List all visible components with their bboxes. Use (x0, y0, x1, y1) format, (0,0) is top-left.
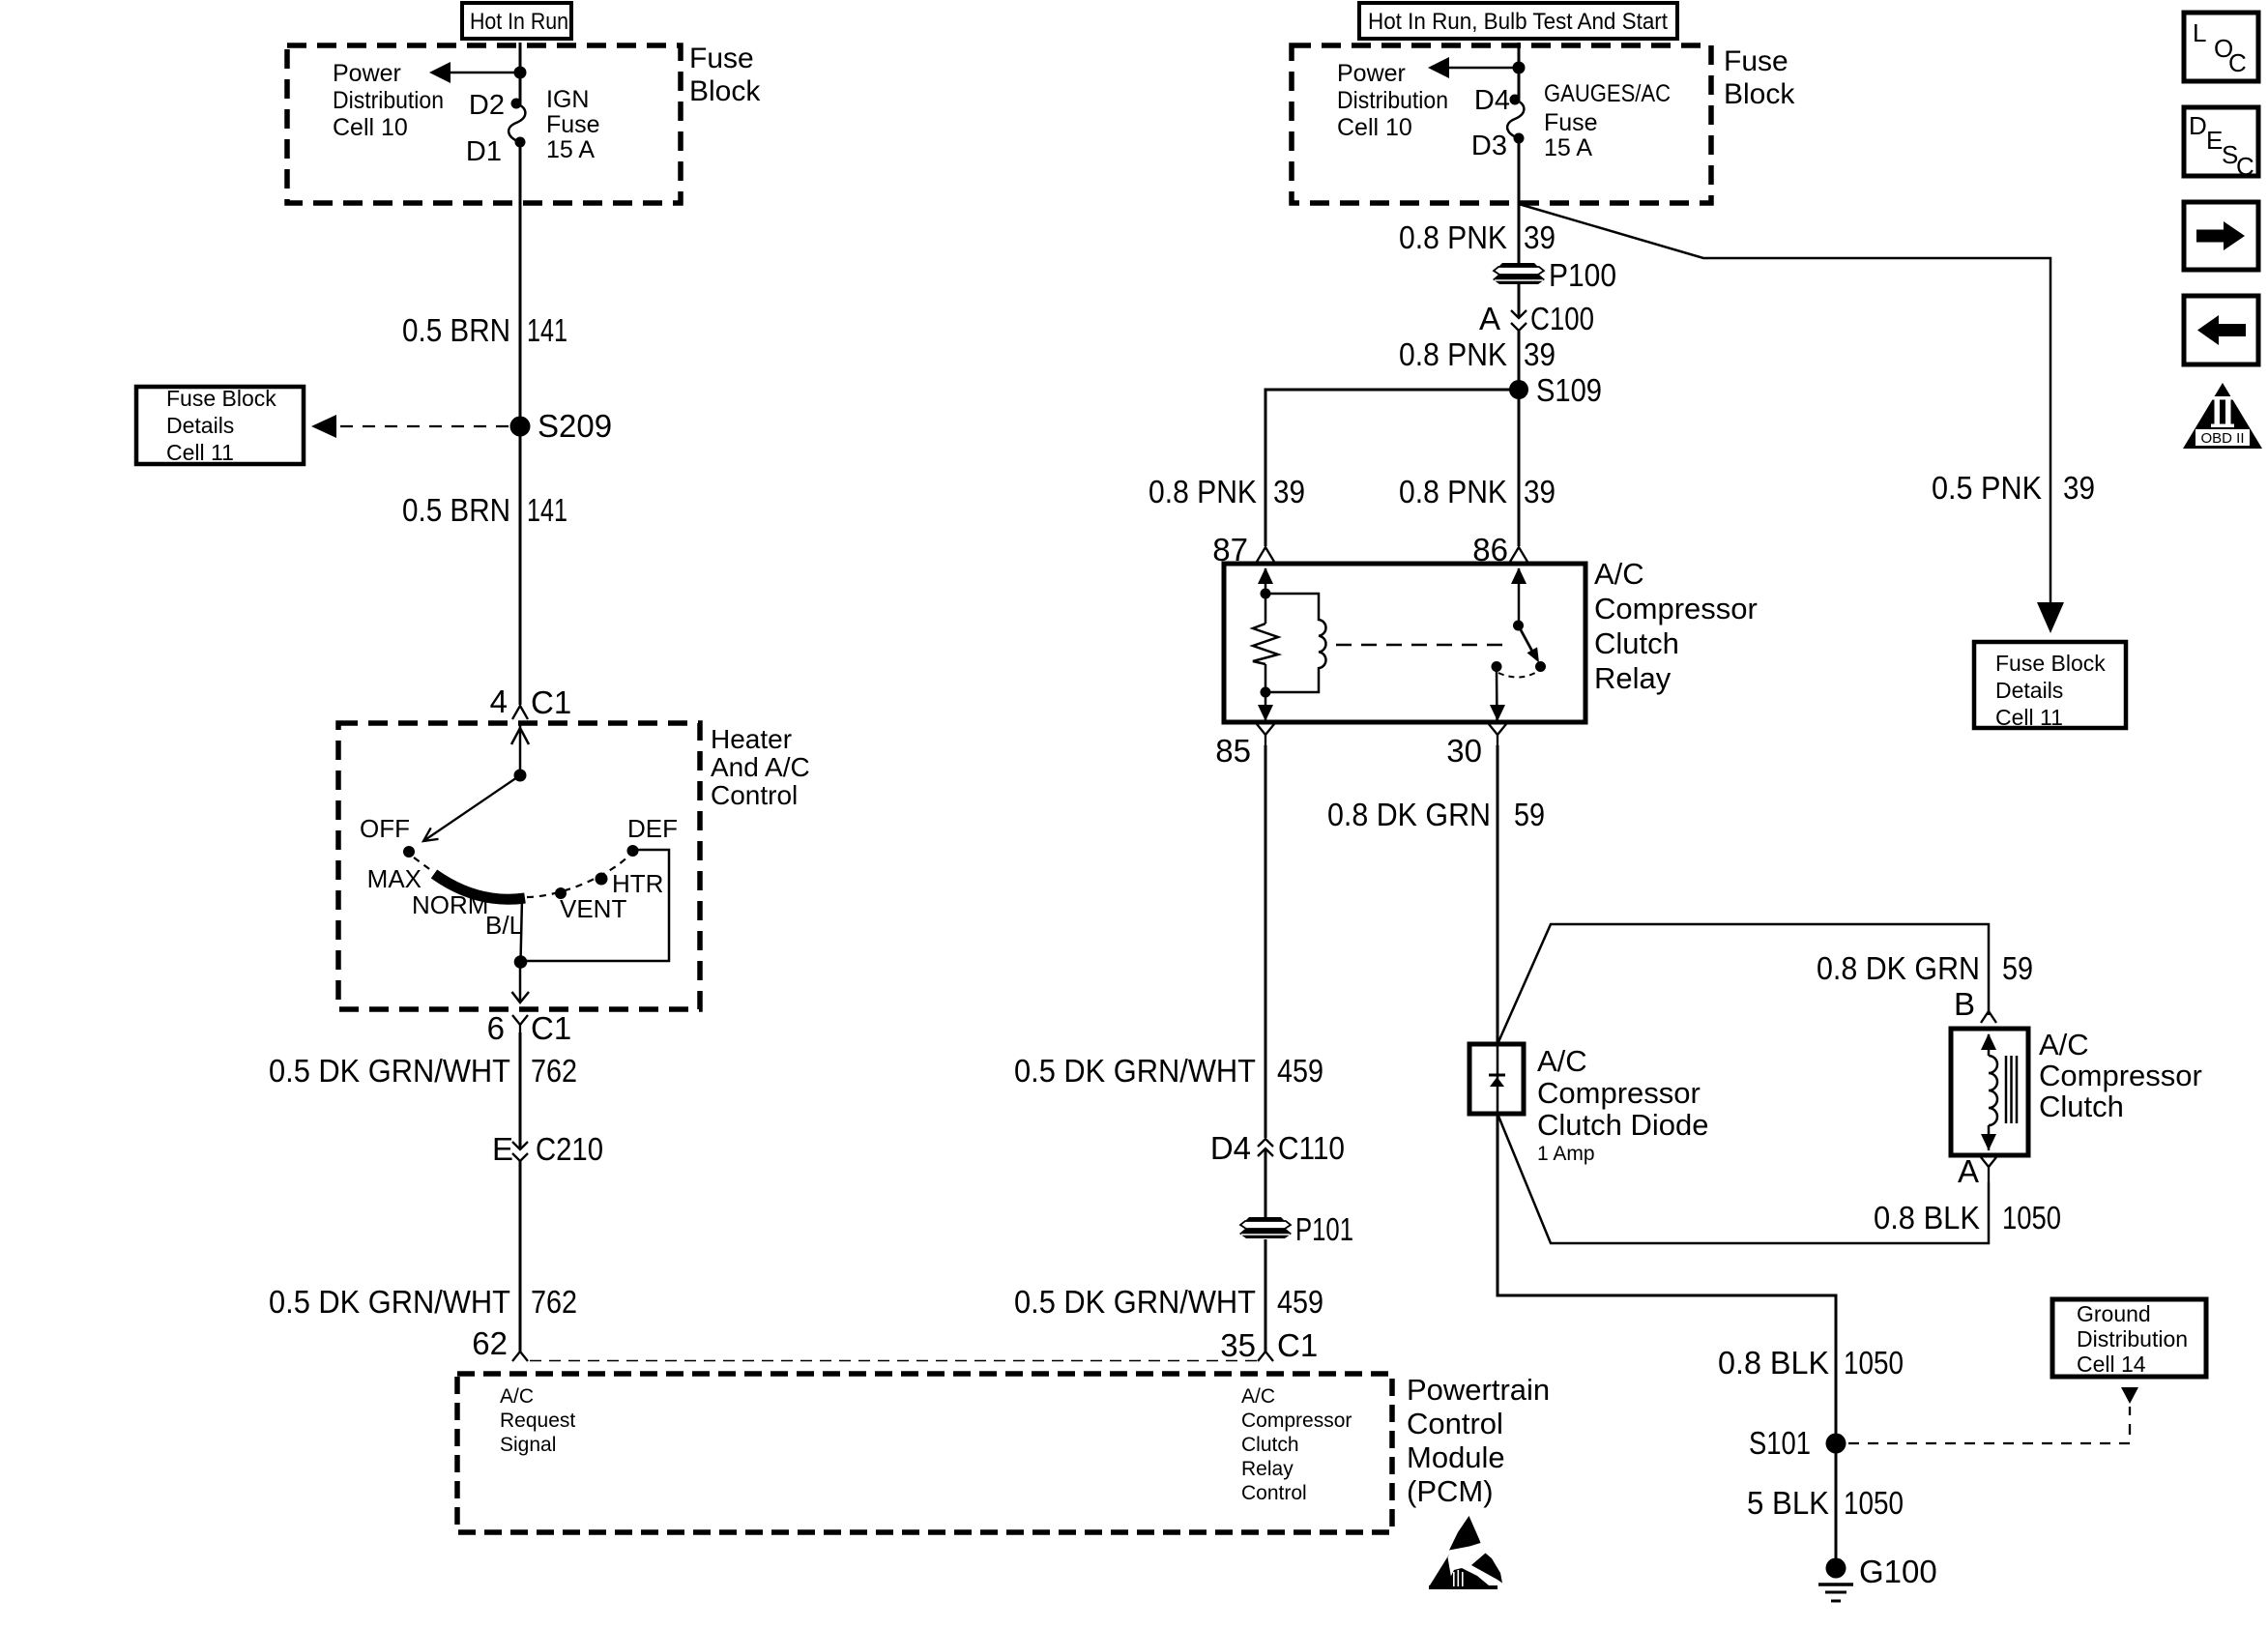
arrow to Power Distribution (left) (429, 62, 520, 83)
relay coil branch wire with arrows (1258, 567, 1273, 721)
pin D3 (1471, 131, 1525, 161)
svg-text:Control: Control (1241, 1482, 1307, 1504)
svg-text:A/C: A/C (1537, 1044, 1587, 1078)
label: Heater And A/C Control (711, 724, 810, 810)
svg-text:Ground: Ground (2077, 1301, 2151, 1326)
clutch coil with arrows (1981, 1033, 1997, 1150)
relay switch arm with arrowhead (1519, 625, 1540, 663)
wire label: 0.8 PNK 39 (first) (1399, 219, 1556, 255)
arrowhead down to details box (2037, 602, 2064, 633)
in-line connector A C100 (1479, 301, 1594, 336)
svg-text:0.5 BRN: 0.5 BRN (402, 312, 510, 348)
svg-text:30: 30 (1446, 733, 1482, 769)
text: Power Distribution Cell 10 (left) (333, 60, 444, 141)
contact VENT (555, 887, 626, 923)
wire label: 0.8 DK GRN 59 (clutch feed) (1817, 950, 2033, 986)
switch wiper arm with arrowhead (423, 775, 520, 841)
wire: relay 85 down to C110 (1265, 745, 1267, 1138)
svg-text:C: C (2236, 152, 2254, 181)
svg-text:Cell 14: Cell 14 (2077, 1352, 2146, 1377)
svg-text:Compressor: Compressor (1241, 1410, 1352, 1432)
pass-through grommet P100 (1493, 257, 1616, 293)
thick wiper travel arc MAX-NORM-B/L (434, 874, 525, 899)
svg-text:DEF: DEF (627, 814, 678, 843)
svg-text:Cell 11: Cell 11 (1995, 705, 2063, 730)
svg-text:Fuse: Fuse (689, 43, 754, 74)
svg-text:Compressor: Compressor (2039, 1059, 2202, 1092)
svg-text:Block: Block (689, 75, 761, 107)
svg-text:Distribution: Distribution (2077, 1326, 2188, 1352)
node label box: Hot In Run (462, 3, 571, 39)
label: A/C Compressor Clutch Diode 1 Amp (1537, 1044, 1708, 1165)
svg-text:A: A (1479, 301, 1500, 336)
svg-text:0.5 BRN: 0.5 BRN (402, 492, 510, 528)
svg-text:Clutch: Clutch (1241, 1434, 1299, 1456)
svg-text:OBD II: OBD II (2200, 430, 2244, 447)
wire: header down to fuse D4 (1518, 43, 1521, 99)
text: Power Distribution Cell 10 (right) (1337, 60, 1448, 141)
svg-text:L: L (2193, 18, 2206, 47)
svg-text:B/L: B/L (485, 911, 523, 940)
icon box LOC (2184, 13, 2258, 81)
wire label: 0.5 BRN 141 (upper) (402, 312, 567, 348)
wire: diode down and over to S101 (1497, 1114, 1836, 1560)
svg-text:A/C: A/C (2039, 1028, 2089, 1061)
wire: relay 30 down to diode (1497, 745, 1499, 1044)
svg-text:1 Amp: 1 Amp (1537, 1143, 1595, 1165)
relay box (1224, 564, 1585, 722)
wire: Hot In Run down to fuse D2 (519, 43, 522, 102)
svg-text:C100: C100 (1530, 301, 1594, 336)
wire: C110 down to P101 (1265, 1148, 1267, 1217)
svg-text:141: 141 (527, 492, 567, 528)
svg-text:D4: D4 (1210, 1130, 1251, 1166)
info box: Fuse Block Details Cell 11 (left) (136, 386, 304, 465)
svg-text:0.8 DK GRN: 0.8 DK GRN (1817, 950, 1980, 986)
icon box DESC (2184, 107, 2258, 181)
svg-text:Clutch Diode: Clutch Diode (1537, 1108, 1708, 1142)
fuse element GAUGES/AC (squiggle) (1507, 100, 1524, 138)
svg-text:Control: Control (711, 780, 798, 810)
wire: B/L contact down to output junction (521, 898, 523, 962)
info box: Fuse Block Details Cell 11 (right) (1974, 642, 2126, 730)
svg-text:762: 762 (531, 1284, 577, 1320)
svg-text:0.8 DK GRN: 0.8 DK GRN (1327, 797, 1491, 832)
pin A chevron (1958, 1153, 1996, 1189)
node S109 (1509, 372, 1602, 408)
contact DEF (627, 814, 679, 857)
relay output wire with down arrow (1490, 669, 1505, 721)
wire label: 0.5 DK GRN/WHT 762 (lower) (269, 1284, 577, 1320)
svg-text:Fuse: Fuse (546, 111, 600, 138)
svg-text:Signal: Signal (500, 1434, 556, 1456)
svg-text:0.5 DK GRN/WHT: 0.5 DK GRN/WHT (1014, 1284, 1256, 1320)
in-line connector D4 C110 (1210, 1130, 1345, 1166)
svg-text:OFF: OFF (360, 814, 410, 843)
pass-through grommet P101 (1239, 1211, 1353, 1247)
svg-text:0.8 PNK: 0.8 PNK (1399, 336, 1507, 372)
svg-text:Power: Power (333, 60, 401, 87)
wire: P100 to C100 (1518, 284, 1521, 318)
svg-text:D4: D4 (1474, 85, 1510, 116)
svg-text:Power: Power (1337, 60, 1406, 87)
pin 87 chevron (1212, 532, 1274, 567)
wire label: 0.8 BLK 1050 (clutch return) (1874, 1200, 2061, 1236)
svg-text:D2: D2 (469, 90, 505, 121)
svg-text:1050: 1050 (2002, 1200, 2061, 1236)
A/C compressor clutch diode box (1469, 1044, 1524, 1114)
wire label: 0.5 DK GRN/WHT 762 (upper) (269, 1053, 577, 1089)
fuse element IGN (squiggle) (509, 103, 525, 142)
svg-text:762: 762 (531, 1053, 577, 1089)
svg-text:(PCM): (PCM) (1407, 1474, 1494, 1508)
relay switch pivot dot (1513, 621, 1524, 631)
svg-text:C1: C1 (531, 1010, 571, 1046)
dashed reference to ground details (1848, 1387, 2138, 1443)
heater feed junction dot (514, 770, 527, 782)
relay contact 30 dot (1492, 661, 1502, 672)
svg-text:Compressor: Compressor (1537, 1076, 1701, 1110)
svg-text:Cell 10: Cell 10 (333, 114, 408, 141)
heater exit wire with down arrow (512, 962, 530, 1003)
PCM dashed box (457, 1374, 1392, 1532)
contact HTR (596, 869, 664, 898)
svg-text:Relay: Relay (1594, 661, 1672, 695)
svg-text:Module: Module (1407, 1440, 1505, 1474)
label: Powertrain Control Module (PCM) (1407, 1373, 1550, 1508)
wire label: 0.5 BRN 141 (lower) (402, 492, 567, 528)
svg-text:6: 6 (487, 1010, 505, 1046)
svg-text:C210: C210 (536, 1131, 603, 1167)
wire label: 0.5 PNK 39 (1932, 470, 2095, 506)
info box: Ground Distribution Cell 14 (2052, 1299, 2206, 1377)
pin 86 chevron (1472, 532, 1527, 567)
svg-text:Block: Block (1724, 78, 1795, 110)
icon box arrow left (2184, 296, 2258, 364)
svg-text:A/C: A/C (500, 1385, 534, 1408)
svg-text:1050: 1050 (1844, 1485, 1904, 1521)
svg-text:0.8 PNK: 0.8 PNK (1149, 474, 1257, 509)
wire label: 0.5 DK GRN/WHT 459 (upper) (1014, 1053, 1323, 1089)
svg-text:0.5 DK GRN/WHT: 0.5 DK GRN/WHT (269, 1053, 510, 1089)
svg-text:D3: D3 (1471, 131, 1507, 161)
svg-text:0.8 PNK: 0.8 PNK (1399, 474, 1507, 509)
wire: diagonal feed to right fuse details (1519, 204, 2050, 607)
wire label: 5 BLK 1050 (1747, 1485, 1904, 1521)
svg-text:Request: Request (500, 1410, 575, 1432)
icon OBD II triangle (2183, 383, 2262, 449)
pin B chevron (1954, 986, 1996, 1023)
text: A/C Request Signal (500, 1385, 575, 1456)
svg-text:C: C (2228, 48, 2247, 77)
icon box arrow right (2184, 202, 2258, 270)
relay actuation dashed link (1336, 644, 1510, 647)
diode symbol (1489, 1075, 1505, 1087)
svg-text:GAUGES/AC: GAUGES/AC (1544, 80, 1671, 107)
dashed arc B/L to DEF through VENT and HTR (527, 855, 630, 897)
svg-text:39: 39 (1524, 219, 1556, 255)
svg-text:Clutch: Clutch (2039, 1090, 2124, 1123)
svg-text:G100: G100 (1859, 1554, 1937, 1589)
svg-text:Distribution: Distribution (1337, 87, 1448, 114)
svg-text:P101: P101 (1295, 1211, 1353, 1247)
svg-text:Clutch: Clutch (1594, 626, 1679, 660)
text: A/C Compressor Clutch Relay Control (1241, 1385, 1352, 1504)
svg-text:Fuse Block: Fuse Block (1995, 651, 2106, 676)
svg-text:Cell 10: Cell 10 (1337, 114, 1412, 141)
wire label: 0.5 DK GRN/WHT 459 (lower) (1014, 1284, 1323, 1320)
svg-text:39: 39 (2063, 470, 2095, 506)
svg-text:E: E (492, 1131, 513, 1167)
svg-text:62: 62 (472, 1325, 508, 1361)
relay switch arm end dot (1535, 661, 1546, 672)
wire through diode box (1497, 1044, 1499, 1114)
relay swing dashed arc (1498, 673, 1535, 678)
heater output junction dot (514, 955, 528, 969)
svg-text:C1: C1 (531, 684, 571, 720)
ESD warning symbol (1429, 1516, 1502, 1589)
svg-text:IGN: IGN (546, 86, 589, 113)
pin D1 (466, 136, 526, 167)
svg-text:0.8 PNK: 0.8 PNK (1399, 219, 1507, 255)
svg-text:39: 39 (1524, 336, 1556, 372)
svg-text:S209: S209 (538, 408, 612, 444)
ground G100 (1818, 1554, 1937, 1601)
svg-text:D1: D1 (466, 136, 502, 167)
wire: P101 down to PCM pin 35 (1265, 1239, 1267, 1352)
svg-text:NORM: NORM (412, 890, 488, 919)
svg-text:0.5 PNK: 0.5 PNK (1932, 470, 2042, 506)
svg-text:39: 39 (1524, 474, 1556, 509)
svg-text:C1: C1 (1277, 1327, 1318, 1363)
svg-text:Distribution: Distribution (333, 87, 444, 114)
svg-text:0.5 DK GRN/WHT: 0.5 DK GRN/WHT (1014, 1053, 1256, 1089)
svg-text:459: 459 (1277, 1053, 1323, 1089)
node S209 (510, 408, 613, 444)
text: IGN Fuse 15 A (546, 86, 600, 163)
svg-text:35: 35 (1220, 1327, 1256, 1363)
label: Fuse Block (left) (689, 43, 761, 107)
svg-text:Details: Details (166, 413, 234, 438)
heater entry wire with up arrow (511, 723, 529, 775)
svg-text:59: 59 (2002, 950, 2033, 986)
svg-text:Hot In Run: Hot In Run (470, 9, 568, 35)
text: GAUGES/AC Fuse 15 A (1544, 80, 1671, 161)
wire label: 0.8 PNK 39 (branch 86) (1399, 474, 1556, 509)
svg-text:Compressor: Compressor (1594, 592, 1758, 625)
svg-text:E: E (2206, 126, 2223, 155)
svg-text:15 A: 15 A (1544, 134, 1592, 161)
label: A/C Compressor Clutch Relay (1594, 557, 1758, 695)
pin 30 chevron (1446, 724, 1506, 769)
pin D4 (1474, 85, 1521, 116)
svg-text:59: 59 (1514, 797, 1545, 832)
svg-text:P100: P100 (1549, 257, 1616, 293)
svg-text:Details: Details (1995, 678, 2063, 703)
wire: DEF loop to output junction (526, 850, 669, 961)
fuse block (right) dashed box (1292, 45, 1711, 203)
pin 85 chevron (1215, 724, 1274, 769)
svg-text:15 A: 15 A (546, 136, 595, 163)
pin 6 C1 (heater connector) (487, 1010, 572, 1046)
heater and A/C control dashed box (338, 723, 700, 1009)
relay coil top dot (1261, 589, 1271, 599)
svg-text:HTR: HTR (612, 869, 663, 898)
relay coil (1265, 594, 1325, 692)
wire label: 0.8 PNK 39 (branch 87) (1149, 474, 1305, 509)
wire: heater to C210 (519, 1032, 522, 1148)
label: A/C Compressor Clutch (2039, 1028, 2202, 1123)
svg-text:1050: 1050 (1844, 1345, 1904, 1381)
label: Fuse Block (right) (1724, 45, 1795, 110)
wire label: 0.8 BLK 1050 (to S101) (1718, 1345, 1904, 1381)
svg-text:S109: S109 (1536, 372, 1602, 408)
node label box: Hot In Run, Bulb Test And Start (1359, 3, 1677, 39)
svg-text:A/C: A/C (1594, 557, 1644, 591)
svg-text:Powertrain: Powertrain (1407, 1373, 1550, 1407)
svg-text:4: 4 (490, 683, 508, 719)
wire: D3 down to P100 (1518, 138, 1521, 263)
svg-text:141: 141 (527, 312, 567, 348)
pin 4 C1 (heater connector) (490, 683, 572, 720)
svg-text:85: 85 (1215, 733, 1251, 769)
svg-text:459: 459 (1277, 1284, 1323, 1320)
svg-text:C110: C110 (1278, 1130, 1345, 1166)
svg-text:Fuse: Fuse (1724, 45, 1788, 77)
in-line connector E C210 (492, 1131, 603, 1167)
diode branch diagonals and clutch loop rails (1497, 924, 1989, 1243)
pin D2 (469, 90, 522, 121)
dashed reference arrow to details box (311, 415, 509, 438)
junction dot in right fuse block (1513, 62, 1526, 74)
clutch core lines (2006, 1056, 2017, 1123)
dashed connector face line 62 to 35 (530, 1360, 1257, 1362)
wire: C100 to S109 to relay 86 (1518, 331, 1521, 546)
wire label: 0.8 PNK 39 (second) (1399, 336, 1556, 372)
svg-text:Hot In Run, Bulb Test And Star: Hot In Run, Bulb Test And Start (1368, 9, 1668, 35)
svg-text:0.8 BLK: 0.8 BLK (1718, 1345, 1829, 1381)
arrow to Power Distribution (right) (1428, 57, 1519, 78)
svg-text:MAX: MAX (367, 864, 422, 893)
wire: C210 down to PCM pin 62 (519, 1160, 522, 1352)
svg-text:Fuse Block: Fuse Block (166, 386, 276, 411)
wire: D1 down to heater C1 (519, 142, 522, 705)
svg-text:Control: Control (1407, 1407, 1503, 1440)
svg-text:D: D (2189, 111, 2207, 140)
junction dot in left fuse block (514, 67, 527, 79)
svg-text:Cell 11: Cell 11 (166, 440, 234, 465)
svg-text:39: 39 (1273, 474, 1305, 509)
wire label: 0.8 DK GRN 59 (relay output) (1327, 797, 1545, 832)
wire: S109 branch to relay 87 (1265, 390, 1519, 546)
svg-text:VENT: VENT (560, 894, 626, 923)
svg-text:5 BLK: 5 BLK (1747, 1485, 1829, 1521)
svg-text:Relay: Relay (1241, 1458, 1294, 1480)
pin 62 chevron (472, 1325, 528, 1361)
pin 35 C1 chevron (1220, 1327, 1318, 1363)
node S101 (1749, 1425, 1846, 1461)
svg-text:A: A (1958, 1153, 1979, 1189)
svg-text:B: B (1954, 986, 1975, 1022)
svg-text:0.5 DK GRN/WHT: 0.5 DK GRN/WHT (269, 1284, 510, 1320)
relay switch input wire with up arrow (1511, 567, 1527, 628)
svg-text:Heater: Heater (711, 724, 792, 754)
svg-text:S101: S101 (1749, 1425, 1811, 1461)
relay resistor (1253, 624, 1278, 664)
svg-text:Fuse: Fuse (1544, 109, 1598, 136)
svg-text:And A/C: And A/C (711, 752, 810, 782)
fuse block (left) dashed box (287, 45, 681, 203)
svg-text:0.8 BLK: 0.8 BLK (1874, 1200, 1980, 1236)
dashed segment OFF to MAX (414, 858, 432, 871)
contact OFF (360, 814, 415, 858)
svg-text:A/C: A/C (1241, 1385, 1275, 1408)
A/C compressor clutch box (1951, 1029, 2028, 1155)
relay coil bottom dot (1261, 687, 1271, 698)
